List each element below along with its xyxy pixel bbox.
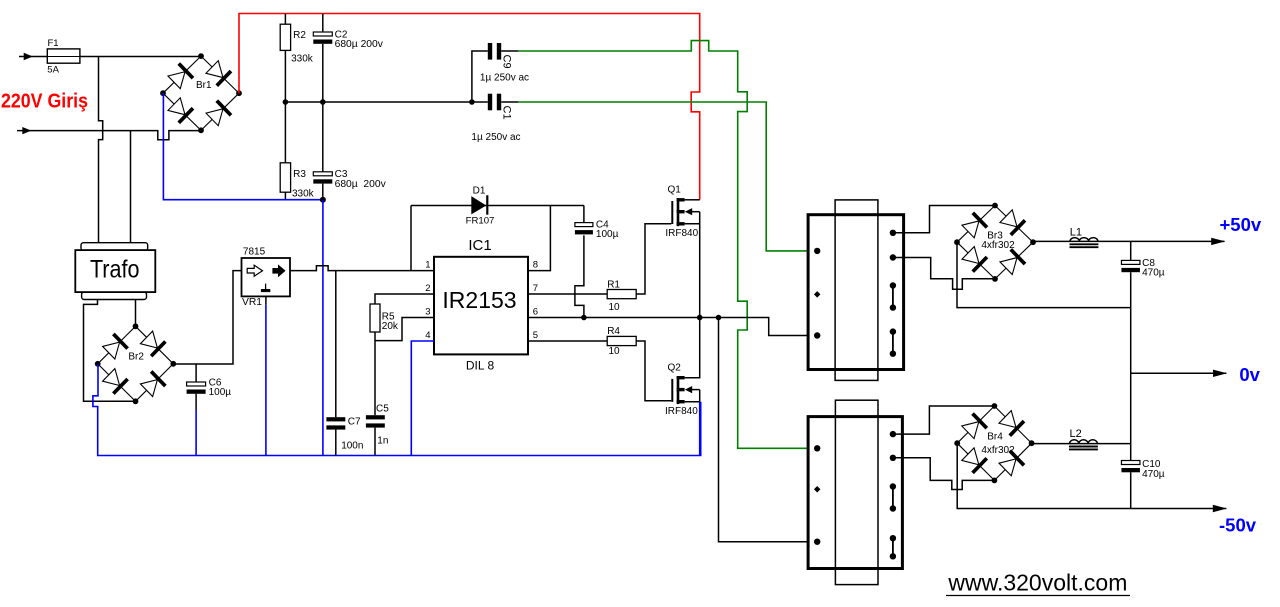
transistor Q2 body-diode arrow <box>685 386 692 393</box>
svg-text:680µ 200v: 680µ 200v <box>335 179 387 190</box>
resistor R4 <box>607 336 636 345</box>
svg-text:20k: 20k <box>382 321 399 332</box>
svg-text:470µ: 470µ <box>1142 267 1165 278</box>
transformer T2 secondary pins <box>890 431 896 437</box>
arrow 0v output <box>1213 370 1227 377</box>
wire Br4 plus through L2 to C10 top <box>1032 443 1131 445</box>
svg-text:5: 5 <box>533 330 538 341</box>
Br3 corner junction nodes <box>992 203 998 209</box>
wire green half-bridge out lower (C1 to T1 primary) <box>518 102 817 251</box>
capacitor C4 <box>575 223 593 227</box>
transistor Q1 gate bar <box>671 201 673 224</box>
Br2 corner junction nodes <box>133 323 139 329</box>
transformer T2 phase mark <box>814 486 821 493</box>
capacitor C8 <box>1121 260 1140 264</box>
wire T1 sec upper to Br3 top <box>893 206 995 233</box>
capacitor C4 lead <box>583 206 585 223</box>
wire Trafo secondary left lead to Br2 <box>84 300 136 402</box>
wire HV midpoint rail <box>285 101 487 103</box>
svg-text:DIL 8: DIL 8 <box>466 358 495 372</box>
wire blue Br2 minus to ground bus (jog around black wire) <box>93 364 701 456</box>
input arrow line 2 (220V neutral) with hop over blue wire <box>17 131 201 140</box>
svg-text:L2: L2 <box>1070 428 1082 440</box>
Br4 diode D LT <box>961 414 987 440</box>
resistor R3 <box>284 102 286 163</box>
transistor Q2 gate bar <box>671 379 673 402</box>
svg-text:7: 7 <box>533 283 538 294</box>
Br2 diode D LB <box>102 368 128 394</box>
fuse F1 <box>47 49 80 63</box>
svg-text:5A: 5A <box>47 65 59 76</box>
wire pin6 node down to T2 lower primary pin <box>719 318 818 542</box>
wire fuse node down to Trafo (with crossover jog) <box>99 57 103 243</box>
svg-text:1µ 250v ac: 1µ 250v ac <box>480 73 529 84</box>
Br3 diode D TR <box>999 209 1025 235</box>
wire C1 to green <box>501 101 518 103</box>
svg-text:VR1: VR1 <box>242 297 262 308</box>
transformer T2 inner core rect <box>835 400 878 584</box>
svg-text:3: 3 <box>425 306 430 317</box>
capacitor C10 <box>1121 461 1140 465</box>
transistor Q2 channel bar <box>677 376 680 404</box>
transformer T2 outer box <box>808 417 902 569</box>
arrow -50v output <box>1213 505 1227 512</box>
wire R4 to Q2 gate <box>636 341 671 401</box>
transistor Q1 channel bar <box>677 198 680 226</box>
svg-text:www.320volt.com: www.320volt.com <box>947 570 1127 596</box>
svg-text:C7: C7 <box>348 416 361 427</box>
Br1 diode D LB <box>167 97 193 123</box>
svg-text:680µ 200v: 680µ 200v <box>335 39 384 50</box>
regulator VR1 7815 box <box>242 258 291 296</box>
wire Q2 source to bus (blue) <box>699 402 701 456</box>
op-amp/driver IC1 IR2153 body <box>434 257 528 355</box>
svg-text:10: 10 <box>609 302 621 313</box>
bridge rectifier Br3 diamond outline <box>957 206 1033 279</box>
svg-text:1: 1 <box>425 259 430 270</box>
svg-text:4xfr302: 4xfr302 <box>981 445 1015 456</box>
capacitor C1 <box>488 94 492 111</box>
svg-text:6: 6 <box>533 306 538 317</box>
svg-text:4xfr302: 4xfr302 <box>981 240 1015 251</box>
wire pin1 branch up to D1 anode <box>410 206 412 271</box>
svg-text:F1: F1 <box>48 38 59 49</box>
wire C5 to bus <box>374 428 376 456</box>
svg-text:1µ 250v ac: 1µ 250v ac <box>471 132 520 143</box>
wire VR1 ground to bus <box>265 296 267 304</box>
transformer T2 primary pins <box>814 445 820 451</box>
Br2 diode D BR <box>139 371 165 397</box>
Br3 diode D BR <box>999 249 1025 275</box>
diode D1 line <box>411 205 584 207</box>
svg-text:IRF840: IRF840 <box>665 406 698 417</box>
svg-text:Q1: Q1 <box>668 185 682 196</box>
wire Trafo secondary right lead to Br2 top <box>135 300 137 327</box>
capacitor C3 <box>322 102 324 172</box>
inductor L1 coil <box>1070 238 1098 242</box>
node blue junction at C3 <box>320 197 326 203</box>
Br1 corner junction nodes <box>198 53 204 59</box>
capacitor C8 lead <box>1130 241 1132 260</box>
svg-text:IR2153: IR2153 <box>442 287 516 313</box>
wire Q1 source ties <box>685 212 700 318</box>
wire fuse to Br1 top <box>80 56 201 58</box>
svg-text:4: 4 <box>425 330 430 341</box>
VR1 input arrow (hollow) <box>247 265 262 276</box>
wire VR1 output to IC pin1 (hop over blue) <box>290 266 434 271</box>
svg-text:Q2: Q2 <box>668 363 682 374</box>
svg-text:Br4: Br4 <box>987 431 1003 442</box>
Br3 diode D LT <box>961 213 987 239</box>
Br1 diode D LT <box>167 64 193 90</box>
Br4 diode D LB <box>961 447 987 473</box>
wire pin2 to R5 <box>375 294 434 304</box>
transformer T1 inner core rect <box>835 200 878 381</box>
node pin6 junctions <box>581 315 587 321</box>
svg-text:-50v: -50v <box>1219 515 1257 536</box>
svg-text:+50v: +50v <box>1220 214 1262 235</box>
svg-text:330k: 330k <box>292 188 315 199</box>
wire T1 sec lower to Br3 bottom (hop) <box>893 258 995 290</box>
svg-text:R1: R1 <box>607 279 620 290</box>
Br4 diode D TR <box>998 410 1024 436</box>
inductor L2 core bars <box>1069 446 1098 448</box>
node midpoint junctions <box>283 99 289 105</box>
svg-text:470µ: 470µ <box>1142 469 1165 480</box>
resistor R2 <box>284 14 286 25</box>
capacitor C7 lead from pin1 rail <box>335 271 337 418</box>
svg-text:C9: C9 <box>501 55 513 69</box>
capacitor C5 <box>366 415 385 419</box>
svg-text:C5: C5 <box>376 403 389 414</box>
Br3 diode D LB <box>961 246 987 272</box>
transformer Trafo core tabs <box>81 243 148 251</box>
wire blue down to ground bus <box>322 200 324 456</box>
wire blue Br1 minus down and right <box>163 93 323 200</box>
wire green half-bridge out upper (C9 to T2 primary, hops) <box>518 41 817 449</box>
wire D1 cathode down to pin8 <box>528 206 550 271</box>
svg-text:Trafo: Trafo <box>90 256 140 284</box>
transformer T1 phase mark <box>814 291 821 298</box>
svg-text:100µ: 100µ <box>596 229 619 240</box>
inductor L1 core bars <box>1070 243 1099 245</box>
wire Br3 plus through L1 to +50v <box>1033 240 1225 242</box>
transformer Trafo body <box>75 250 155 292</box>
wire C8 bottom / 0v vertical rail <box>1130 272 1132 460</box>
svg-text:Br1: Br1 <box>196 80 212 91</box>
wire C9 to green <box>501 50 518 52</box>
svg-text:100µ: 100µ <box>209 387 232 398</box>
diode D1 FR107 <box>471 196 486 214</box>
bridge rectifier Br2 diamond outline <box>98 326 174 401</box>
wire R1 to Q1 gate <box>636 224 671 294</box>
wire Q1 drain lead <box>685 199 700 201</box>
transformer T2 secondary winding links <box>892 487 894 509</box>
wire T2 sec upper to Br4 top <box>893 406 994 434</box>
svg-text:2: 2 <box>425 283 430 294</box>
svg-text:8: 8 <box>533 259 538 270</box>
svg-text:7815: 7815 <box>243 247 266 258</box>
svg-text:FR107: FR107 <box>466 215 495 226</box>
wire Br3 minus down and right to C8 bottom <box>957 242 1131 307</box>
wire T2 sec lower to Br4 bottom (hop) <box>893 458 994 490</box>
Br1 diode D BR <box>205 101 231 127</box>
wire Br4 minus down to -50v rail <box>957 443 1226 508</box>
bridge rectifier Br4 diamond outline <box>957 406 1031 480</box>
resistor R5 <box>370 304 380 332</box>
svg-text:220V Giriş: 220V Giriş <box>1 89 88 112</box>
bridge rectifier Br1 diamond outline <box>163 56 239 130</box>
transformer T1 outer box <box>808 215 904 370</box>
wire C4 down to pin6 (hop over pin7 wire) <box>575 235 584 317</box>
svg-text:IRF840: IRF840 <box>665 228 698 239</box>
capacitor C7 <box>326 417 345 421</box>
wire red HV+ from Br1 to Q1 drain (hop over green) <box>239 14 700 200</box>
svg-text:D1: D1 <box>473 185 486 196</box>
transformer T1 secondary pins <box>890 230 896 236</box>
capacitor C2 <box>322 14 324 32</box>
svg-text:R4: R4 <box>607 326 620 337</box>
arrow +50v output <box>1211 238 1225 245</box>
VR1 ground symbol <box>265 284 267 289</box>
svg-text:L1: L1 <box>1070 226 1082 238</box>
input arrow line 1 (220V live) <box>19 56 47 58</box>
Br2 diode D TR <box>139 330 165 356</box>
svg-text:Br2: Br2 <box>128 351 144 362</box>
wire pin7 to R1 <box>528 293 607 295</box>
wire pin5 to R4 <box>528 340 607 342</box>
transistor Q1 contacts (drain/body/source) <box>677 198 685 201</box>
wire R5 bottom to C5 <box>374 332 376 415</box>
transformer T1 secondary winding links <box>892 286 894 308</box>
svg-text:10: 10 <box>609 346 621 357</box>
Br4 corner junction nodes <box>992 403 998 409</box>
transistor Q1 body-diode arrow <box>685 208 692 215</box>
Br1 diode D TR <box>205 60 231 86</box>
capacitor C9 <box>488 43 492 60</box>
transformer T1 primary pins <box>814 248 820 254</box>
svg-text:330k: 330k <box>291 53 314 64</box>
wire pin3 to R5 bottom <box>375 318 434 341</box>
resistor R1 <box>607 290 636 299</box>
wire C9 branch up <box>472 51 488 102</box>
Br2 diode D LT <box>102 334 128 360</box>
wire pin4 to ground bus (blue) <box>411 341 434 456</box>
capacitor C6 <box>195 364 197 382</box>
wire Br2 plus to VR1 input <box>173 271 241 364</box>
wire Q2 source ties <box>685 390 700 402</box>
wire Q2 drain up to pin6 node <box>685 318 700 378</box>
svg-text:0v: 0v <box>1239 364 1260 385</box>
inductor L2 coil <box>1070 440 1098 444</box>
svg-text:R3: R3 <box>293 169 306 180</box>
wire pin6 rail to T1 lower primary pin <box>528 318 817 336</box>
svg-text:R2: R2 <box>293 30 306 41</box>
Br4 diode D BR <box>998 451 1024 477</box>
wire 0v output <box>1131 372 1227 374</box>
wire input2 node down to Trafo <box>130 131 132 243</box>
wire C7 to bus <box>335 430 337 456</box>
svg-text:100n: 100n <box>341 441 363 452</box>
svg-text:1n: 1n <box>377 435 388 446</box>
transistor Q2 contacts (drain/body/source) <box>677 376 685 379</box>
VR1 output arrow (solid) <box>272 268 278 274</box>
wire C10 bottom to -50v rail <box>1130 472 1132 508</box>
svg-text:C1: C1 <box>501 106 513 120</box>
svg-text:IC1: IC1 <box>468 237 491 254</box>
